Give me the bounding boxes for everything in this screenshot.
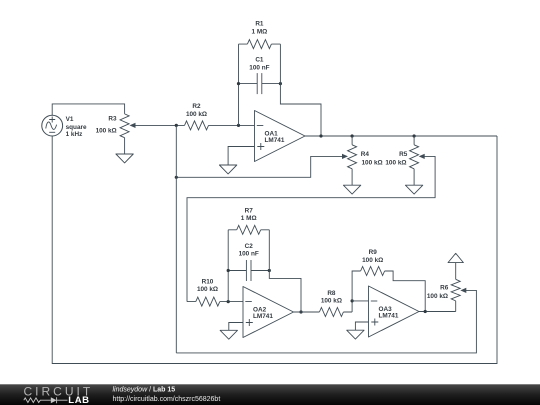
svg-text:LAB: LAB [68,395,89,405]
svg-text:V1: V1 [66,116,74,123]
node R3-R2 junction [175,124,178,127]
op-amp OA3 LM741 [369,286,420,337]
wire OA3 output to R6 [419,311,456,313]
node wiper bus junction [175,176,178,179]
ground at OA3 + input [347,330,364,339]
resistor R7 1M [228,208,269,235]
svg-text:R1: R1 [255,21,264,28]
wire OA3 non-inverting input to ground [355,322,368,330]
node C1 left junction [237,82,240,85]
wire R7/C2 left column [227,230,229,302]
svg-text:100 kΩ: 100 kΩ [321,298,342,305]
wire R4 wiper to summing node [176,156,345,177]
svg-text:100 nF: 100 nF [249,64,269,71]
svg-text:R2: R2 [192,103,201,110]
node OA1 input junction [237,124,240,127]
wire OA1 output rail [305,135,497,137]
wire R3 wiper to R2 [134,124,185,126]
svg-text:square: square [66,124,87,131]
capacitor C2 100nF [228,243,269,281]
R3 wiper arrow [130,123,136,128]
svg-text:1 kHz: 1 kHz [66,131,83,138]
svg-text:100 kΩ: 100 kΩ [362,257,383,264]
node C1 right junction [279,82,282,85]
svg-text:lindseydow / Lab 15: lindseydow / Lab 15 [113,386,176,393]
svg-text:100 kΩ: 100 kΩ [96,127,117,134]
wire V1 top to R3 top [52,104,124,115]
ground under R4 [343,185,360,194]
svg-text:R7: R7 [245,208,254,215]
node R4 top junction [351,134,354,137]
svg-text:R10: R10 [202,279,214,286]
wire V1 bottom outer loop [52,136,497,364]
resistor R8 100k [294,290,353,317]
wire R5 wiper return loop [187,156,435,301]
node OA3 output junction [424,310,427,313]
footer bar [0,384,540,405]
svg-text:1 MΩ: 1 MΩ [252,29,268,36]
svg-text:C1: C1 [255,57,264,64]
svg-text:1 MΩ: 1 MΩ [241,215,257,222]
logo diode symbol [51,397,68,403]
wire OA2 non-inverting input to ground [229,323,243,331]
wire R2 to OA1 inverting input [209,124,255,126]
svg-text:R4: R4 [361,151,370,158]
svg-text:C2: C2 [245,243,254,250]
svg-text:R6: R6 [440,284,449,291]
node C2 left junction [227,269,230,272]
node OA1 output feedback tap [319,134,322,137]
svg-text:LM741: LM741 [379,313,399,320]
ground at OA2 + input [220,330,237,339]
R4 wiper arrow [342,154,348,159]
ground at OA1 + input [219,165,236,174]
node R5 top junction [413,134,416,137]
footer author / title [113,386,176,393]
svg-text:R3: R3 [108,115,117,122]
footer url [113,396,221,403]
wire R8 junction to OA3 inverting input [352,300,368,302]
R5 wiper arrow [419,154,425,159]
svg-text:LM741: LM741 [253,313,273,320]
op-amp OA2 LM741 [243,287,294,338]
logo resistor zigzag [24,398,51,403]
node C2 right junction [268,269,271,272]
node OA2 output junction [299,310,302,313]
R6 wiper arrow [460,288,466,293]
voltage source V1 [42,115,87,138]
resistor R9 100k [352,249,425,311]
node OA2 input junction [227,300,230,303]
svg-text:http://circuitlab.com/chszrc56: http://circuitlab.com/chszrc56826bt [113,396,221,403]
node OA3 input junction [351,299,354,302]
wire feedback R1/C1 right to OA1 output [280,44,321,136]
svg-text:R9: R9 [369,249,378,256]
wire feedback R7/C2 right to OA2 output [269,230,301,312]
svg-text:R8: R8 [327,290,336,297]
wire R1/C1 left column [238,44,240,125]
svg-text:100 kΩ: 100 kΩ [362,160,383,167]
capacitor C1 100nF [239,57,281,95]
logo text LAB [68,395,89,405]
op-amp OA1 LM741 [255,111,306,162]
svg-text:100 kΩ: 100 kΩ [197,286,218,293]
ground under R5 [405,185,422,194]
resistor R2 100k [185,103,209,130]
svg-text:100 kΩ: 100 kΩ [427,293,448,300]
resistor R3 100k potentiometer [96,114,130,154]
svg-text:R5: R5 [399,151,408,158]
resistor R10 100k [187,279,243,307]
resistor R4 100k potentiometer [348,136,383,185]
svg-text:LM741: LM741 [265,137,285,144]
resistor R5 100k potentiometer [385,136,418,185]
wire wiper bus vertical [175,125,177,353]
resistor R1 1M [239,21,281,49]
wire R6 wiper return to wiper bus [176,290,476,353]
svg-text:100 kΩ: 100 kΩ [385,160,406,167]
svg-text:100 kΩ: 100 kΩ [186,111,207,118]
CircuitLab logo text CIRCUIT [24,385,94,399]
svg-text:100 nF: 100 nF [239,251,259,258]
wire OA1 non-inverting input to ground [228,147,254,166]
ground under R3 [116,154,133,163]
resistor R6 100k potentiometer with top terminal [427,253,464,311]
